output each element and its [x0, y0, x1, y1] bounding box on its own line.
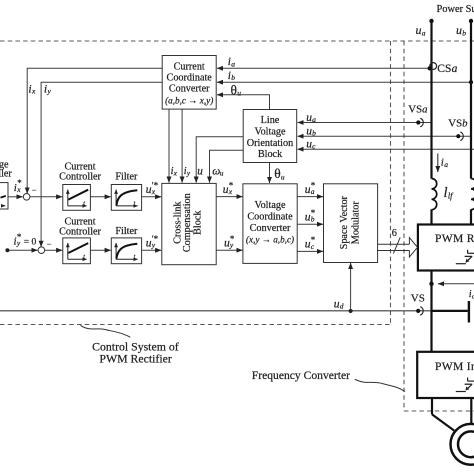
svg-text:u: u [197, 166, 203, 178]
svg-text:CSa: CSa [437, 63, 457, 75]
svg-text:Space Vector: Space Vector [339, 195, 350, 249]
svg-text:−: − [47, 239, 52, 249]
svg-text:Voltage: Voltage [255, 127, 286, 138]
svg-text:−: − [32, 185, 37, 195]
svg-text:*: * [229, 180, 234, 190]
svg-text:= 0: = 0 [24, 238, 37, 248]
svg-text:*: * [311, 235, 316, 245]
svg-text:Filter: Filter [115, 171, 138, 182]
svg-text:(a,b,c → x,y): (a,b,c → x,y) [165, 95, 213, 105]
svg-text:a: a [231, 59, 235, 68]
svg-text:a: a [312, 115, 316, 124]
svg-text:Modulator: Modulator [350, 201, 361, 245]
svg-text:u: u [416, 23, 422, 37]
svg-text:*: * [311, 180, 316, 190]
svg-text:Filter: Filter [115, 226, 138, 237]
svg-text:a: a [444, 160, 448, 169]
svg-text:Block: Block [193, 210, 204, 235]
svg-text:u: u [281, 172, 285, 181]
svg-text:Line: Line [261, 115, 280, 126]
svg-text:y: y [47, 87, 52, 96]
svg-text:u: u [456, 23, 462, 37]
svg-text:′*: ′* [152, 234, 159, 244]
svg-text:b: b [312, 129, 316, 138]
svg-text:Converter: Converter [169, 84, 210, 95]
svg-text:(x,y → a,b,c): (x,y → a,b,c) [246, 235, 294, 245]
svg-text:VS: VS [411, 292, 425, 304]
svg-text:u: u [220, 169, 224, 178]
svg-text:Frequency Converter: Frequency Converter [252, 369, 350, 382]
svg-text:*: * [17, 178, 22, 188]
svg-text:Orientation: Orientation [247, 138, 293, 149]
svg-text:Compensation: Compensation [182, 193, 193, 252]
svg-text:Voltage: Voltage [255, 200, 286, 211]
svg-text:Controller: Controller [59, 226, 101, 237]
svg-text:*: * [17, 232, 22, 242]
svg-text:6: 6 [392, 228, 397, 239]
svg-text:PWM Rectifier: PWM Rectifier [99, 352, 171, 366]
svg-text:PWM Rectifier: PWM Rectifier [435, 232, 474, 245]
svg-text:Power Supply: Power Supply [437, 4, 474, 15]
svg-text:Controller: Controller [59, 171, 101, 182]
svg-text:VSb: VSb [448, 117, 468, 129]
svg-text:*: * [311, 208, 316, 218]
svg-text:b: b [231, 73, 235, 82]
svg-text:Controller: Controller [0, 169, 12, 180]
svg-text:Converter: Converter [250, 223, 291, 234]
svg-text:b: b [462, 28, 466, 37]
svg-text:Coordinate: Coordinate [247, 211, 293, 222]
svg-text:Block: Block [258, 149, 283, 160]
svg-text:u: u [237, 89, 241, 98]
svg-text:′*: ′* [152, 180, 159, 190]
svg-text:PWM Inverter: PWM Inverter [435, 360, 474, 373]
svg-text:a: a [422, 28, 426, 37]
svg-text:θ: θ [231, 82, 237, 97]
svg-text:*: * [230, 234, 235, 244]
svg-text:Current: Current [174, 62, 205, 73]
svg-text:θ: θ [274, 166, 280, 181]
svg-text:VSa: VSa [408, 104, 427, 116]
svg-text:d: d [340, 302, 344, 311]
svg-text:x: x [31, 87, 36, 96]
svg-text:Coordinate: Coordinate [167, 73, 213, 84]
